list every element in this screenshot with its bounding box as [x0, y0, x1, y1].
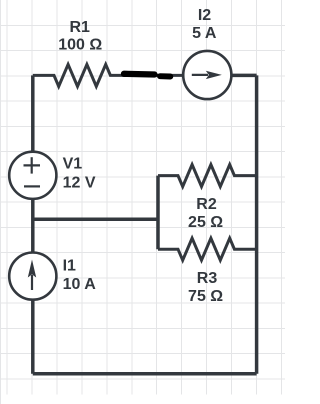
wire left vertical [31, 75, 35, 373]
svg-text:75 Ω: 75 Ω [188, 288, 223, 305]
wire highlight annotation (thick black marker strokes) [124, 74, 170, 77]
svg-text:10 A: 10 A [63, 276, 97, 293]
wire top-right from I2 to corner [207, 74, 257, 78]
wire bottom horizontal [33, 372, 257, 376]
current source I1 [9, 253, 56, 300]
svg-text:V1: V1 [63, 156, 83, 173]
svg-text:5 A: 5 A [192, 25, 217, 42]
svg-text:I2: I2 [198, 7, 211, 24]
wire parallel-junction vertical [156, 176, 160, 250]
resistor R3 [158, 238, 257, 260]
wire middle horizontal from left rail to parallel junction [33, 217, 158, 221]
current source I2 [183, 51, 231, 99]
svg-text:R1: R1 [69, 19, 90, 36]
svg-text:12 V: 12 V [63, 175, 96, 192]
wire right vertical [255, 75, 259, 373]
resistor R2 [158, 165, 257, 187]
svg-text:25 Ω: 25 Ω [188, 214, 223, 231]
resistor R1 [33, 64, 185, 86]
svg-text:I1: I1 [63, 258, 76, 275]
svg-text:R3: R3 [197, 270, 218, 287]
svg-text:100 Ω: 100 Ω [58, 37, 102, 54]
svg-text:R2: R2 [196, 196, 217, 213]
voltage source V1 [9, 152, 56, 199]
